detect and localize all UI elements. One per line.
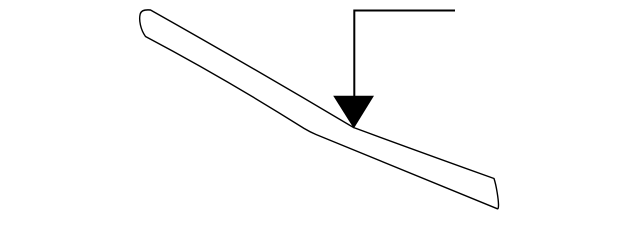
arrowhead [333, 96, 374, 129]
force arrow: horizontal + vertical line [354, 11, 455, 101]
ski beam outline [140, 10, 499, 209]
